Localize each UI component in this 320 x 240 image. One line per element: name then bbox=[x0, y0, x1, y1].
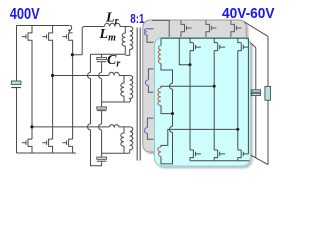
node dot: Q3 source / phase 1 bbox=[71, 53, 74, 56]
transformer winding P3 bbox=[130, 127, 133, 153]
gray module: SR MOSFET QA1 bbox=[181, 21, 192, 49]
wire: +bus vertical bbox=[267, 36, 269, 164]
cyan: SR MOSFET QS5 bottom bbox=[214, 150, 225, 161]
transformer winding P2 bbox=[102, 76, 133, 103]
arrowhead bbox=[68, 29, 71, 32]
input DC+ rail bbox=[17, 25, 70, 27]
cyan: winding S2 top wire (node B) bbox=[161, 86, 214, 88]
node dot: Q2 source / phase 2 bbox=[51, 74, 54, 77]
cyan: phase bus wires down to bottom FET drains bbox=[190, 65, 238, 150]
core bar 1 bbox=[136, 28, 138, 161]
magnetizing inductor Lm2 bbox=[121, 76, 124, 103]
input left rail bbox=[16, 26, 18, 82]
cyan: SR MOSFET QS3 top bbox=[238, 38, 249, 129]
node dot A bbox=[189, 63, 192, 66]
svg-text:400V: 400V bbox=[10, 6, 40, 23]
wire: phase3 node y=126.9 bbox=[32, 126, 109, 128]
MOSFET Q2 (top mid) bbox=[42, 26, 52, 140]
wire hop: x=101.6 over y=75.5 bbox=[99, 73, 102, 79]
svg-text:Cr: Cr bbox=[107, 53, 120, 70]
wire hop: x=90.5 over y=75.5 bbox=[88, 73, 91, 79]
gray module: SR MOSFET QA3 bbox=[231, 21, 242, 49]
bottom DC- rail bbox=[17, 152, 130, 154]
cyan: - rail bottom bbox=[190, 160, 249, 162]
cell3 series coil bbox=[109, 125, 129, 127]
svg-text:8:1: 8:1 bbox=[130, 12, 144, 26]
cyan: SR MOSFET QS6 bottom bbox=[238, 150, 249, 161]
wire: switch feed x=82 bbox=[82, 27, 104, 55]
MOSFET Q6 (bottom right) bbox=[62, 139, 72, 153]
cyan: winding S3 bbox=[158, 147, 161, 157]
node dot B bbox=[213, 85, 216, 88]
MOSFET Q4 (bottom left) bbox=[22, 139, 32, 153]
svg-text:Lm: Lm bbox=[99, 27, 117, 44]
wire hop: x=172.5 over y=129.4 bbox=[170, 126, 173, 132]
output capacitor Co bbox=[251, 90, 261, 96]
node dot: Q4 drain / phase 3 bbox=[30, 125, 33, 128]
cyan module box bbox=[155, 38, 251, 167]
cyan: winding S2 bbox=[158, 88, 161, 106]
series capacitor (cell3) bbox=[97, 157, 107, 161]
cyan: link wire S2-bottom to S3 loop bbox=[168, 114, 173, 164]
cyan: winding S1 top wire bbox=[161, 38, 190, 65]
resonant capacitor Cr (cell1) bbox=[97, 54, 107, 102]
magnetizing inductor Lm (cell1) bbox=[122, 27, 125, 55]
MOSFET Q5 (bottom mid) bbox=[42, 139, 52, 153]
node dot S2-bottom bbox=[171, 112, 174, 115]
wire hop: x=101.6 over y=126.9 bbox=[99, 124, 102, 130]
wire hop: x=90.5 over y=126.9 bbox=[88, 124, 91, 130]
magnetizing inductor Lm3 bbox=[121, 127, 124, 153]
cyan: SR MOSFET QS1 top bbox=[190, 38, 201, 65]
input left rail lower bbox=[16, 88, 18, 154]
wire: phase1 node y=55.3 bbox=[73, 53, 126, 56]
gray module box bbox=[143, 20, 247, 152]
transformer winding P1 bbox=[125, 27, 133, 56]
wire hop: x=172.5 over y=86.2 bbox=[170, 83, 173, 89]
cyan: winding S3 top wire (node C) bbox=[161, 129, 238, 147]
MOSFET Q3 (top right) bbox=[62, 33, 72, 140]
core bar 2 bbox=[139, 28, 141, 161]
cyan: winding S1 bottom wire bbox=[161, 64, 173, 114]
svg-text:Lr: Lr bbox=[105, 11, 119, 28]
wire: cap rail vertical bbox=[255, 48, 257, 159]
cyan: SR MOSFET QS2 top bbox=[214, 38, 225, 86]
cyan: winding S3 bottom wire bbox=[161, 157, 168, 164]
cyan: winding S1 bbox=[158, 46, 161, 64]
wire: diagonal gray-box corner to +bus bbox=[244, 22, 268, 37]
node dot C bbox=[236, 128, 239, 131]
cyan: winding S2 bottom wire bbox=[161, 106, 173, 114]
cyan: + rail top bbox=[161, 38, 248, 154]
input capacitor Cin bbox=[11, 81, 21, 88]
gray module: secondary winding SA1 bbox=[144, 29, 153, 42]
cyan: SR MOSFET QS4 bottom bbox=[190, 150, 201, 161]
svg-text:40V-60V: 40V-60V bbox=[222, 5, 275, 22]
series capacitor (cell2) bbox=[97, 102, 107, 157]
gray module: left node wire bbox=[152, 20, 169, 45]
cell2 series coil bbox=[109, 72, 130, 75]
gray module: secondary winding SA2 bbox=[146, 69, 154, 92]
rail arrow into Q3 drain bbox=[70, 26, 72, 31]
MOSFET Q1 (top left) bbox=[22, 26, 32, 140]
wire: diagonal cyan-box corner to cap rail bbox=[247, 40, 256, 48]
branch wire x=90.5 bbox=[90, 54, 101, 166]
wire: diagonal cyan-box bottom corner to -bus bbox=[248, 154, 268, 165]
resonant inductor Lr coil bbox=[104, 23, 129, 26]
gray module: SR MOSFET QA2 bbox=[206, 21, 217, 49]
wire: phase2 node y=75.5 bbox=[53, 75, 109, 77]
gray module: secondary winding SA3 bbox=[145, 118, 154, 139]
load resistor RL bbox=[265, 86, 271, 100]
